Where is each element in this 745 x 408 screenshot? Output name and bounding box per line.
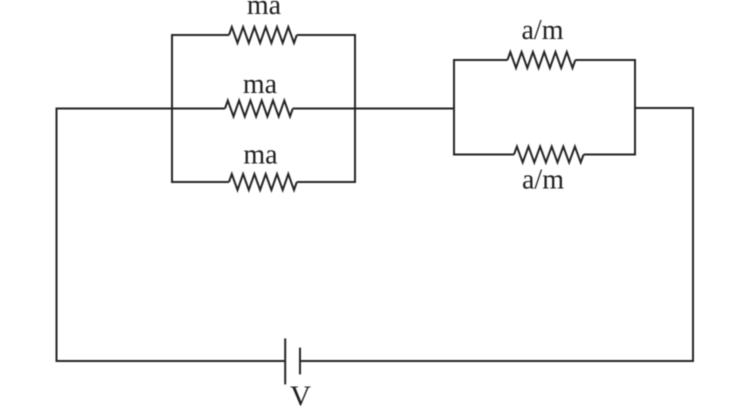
wire: right block top branch right segment [575, 59, 636, 61]
svg-text:V: V [290, 381, 311, 408]
wire: right vertical conductor [692, 108, 694, 363]
wire: left vertical conductor [56, 108, 58, 363]
svg-text:ma: ma [243, 140, 278, 171]
wire: right block top branch left segment [453, 59, 508, 61]
wire: bottom conductor right of battery [300, 360, 694, 362]
node: left bar of right parallel block [453, 59, 455, 156]
resistor R3 (ma, bottom) [229, 174, 297, 190]
node: right bar of left parallel block [354, 34, 356, 183]
wire: bottom branch left segment [171, 181, 229, 183]
wire: bottom branch right segment [297, 181, 356, 183]
wire: right block bottom branch right segment [584, 154, 636, 156]
battery V: long plate [284, 338, 286, 384]
svg-text:ma: ma [243, 69, 278, 100]
resistor R1 (ma, top) [229, 27, 297, 43]
wire: top branch right segment [297, 34, 356, 36]
resistor R5 (a/m, bottom) [514, 147, 584, 163]
node: left bar of left parallel block [171, 34, 173, 183]
resistor R4 (a/m, top) [508, 52, 576, 68]
battery V: short plate [299, 348, 301, 375]
svg-text:a/m: a/m [522, 15, 564, 46]
wire: middle horizontal conductor from left rail to resistor network [56, 108, 226, 110]
wire: bottom conductor left of battery [56, 360, 286, 362]
wire: middle horizontal conductor from R2 to right parallel block [293, 108, 454, 110]
resistor R2 (ma, middle) [225, 101, 293, 117]
wire: right block bottom branch left segment [453, 154, 514, 156]
svg-text:a/m: a/m [522, 165, 564, 196]
wire: conductor from right parallel block to right rail [635, 107, 694, 109]
wire: top branch left segment [171, 34, 229, 36]
svg-text:ma: ma [247, 0, 282, 21]
node: right bar of right parallel block [634, 59, 636, 156]
